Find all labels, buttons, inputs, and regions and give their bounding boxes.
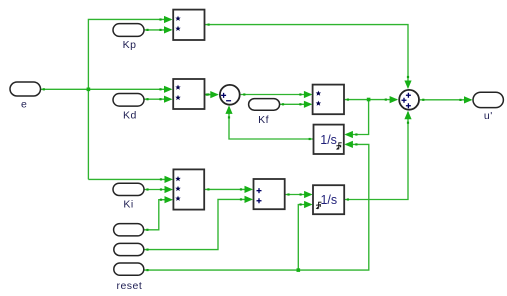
svg-text:1/s: 1/s — [320, 193, 337, 207]
svg-text:Kf: Kf — [258, 114, 269, 126]
svg-text:e: e — [21, 99, 27, 111]
svg-text:Ki: Ki — [123, 198, 133, 210]
svg-text:reset: reset — [116, 280, 142, 292]
svg-text:Kd: Kd — [123, 109, 137, 121]
svg-text:Kp: Kp — [123, 39, 137, 51]
svg-text:1/s: 1/s — [320, 133, 337, 147]
svg-text:u': u' — [484, 110, 493, 122]
